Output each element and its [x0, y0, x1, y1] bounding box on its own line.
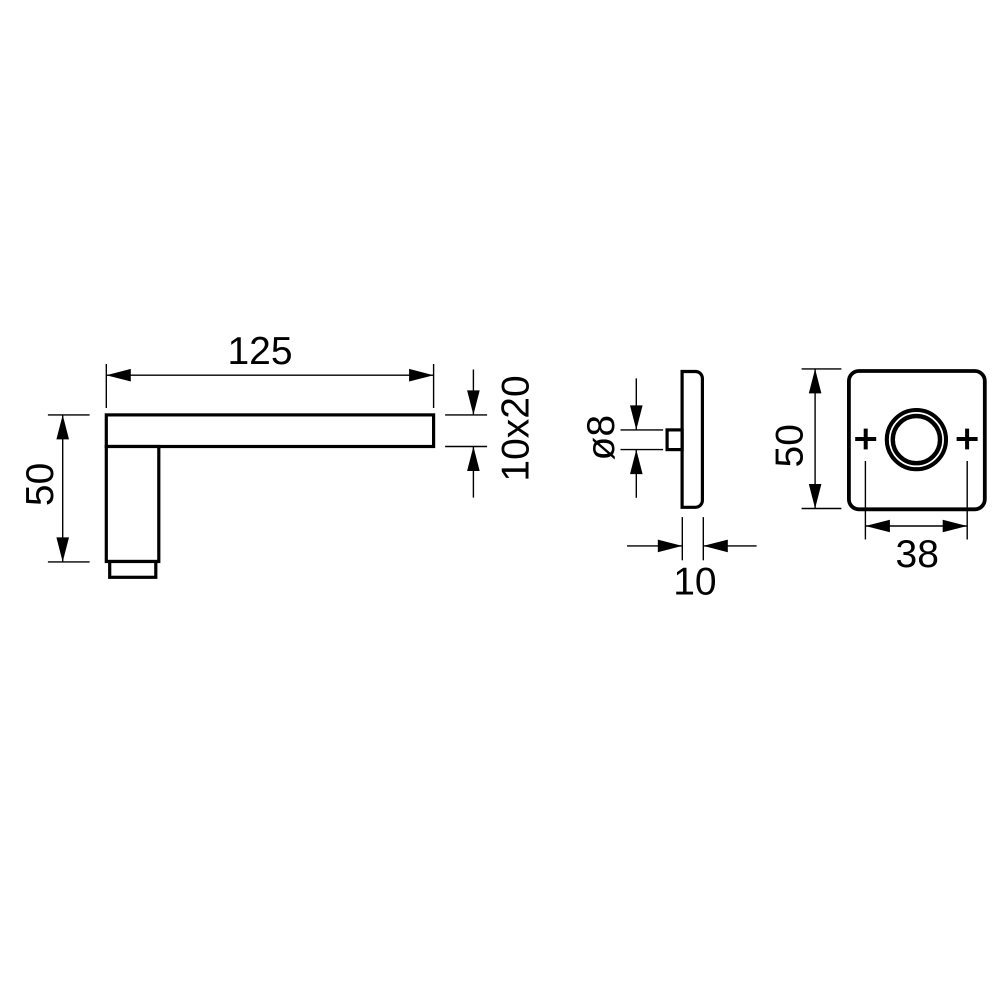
svg-text:50: 50 [768, 424, 811, 467]
svg-text:125: 125 [227, 330, 292, 373]
svg-text:ø8: ø8 [580, 415, 623, 461]
svg-text:50: 50 [19, 463, 62, 506]
svg-text:10: 10 [673, 561, 716, 604]
svg-text:38: 38 [896, 533, 939, 576]
svg-text:10x20: 10x20 [495, 375, 538, 481]
